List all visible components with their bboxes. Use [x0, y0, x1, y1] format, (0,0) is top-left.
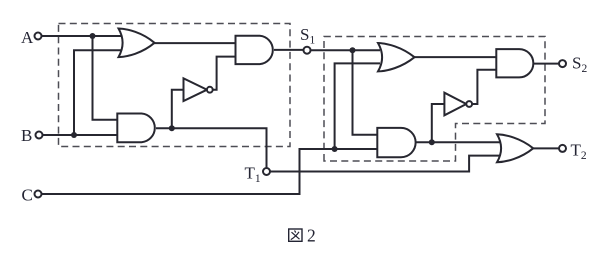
svg-text:S2: S2 [572, 53, 587, 75]
and-gate AND4 [377, 128, 415, 157]
wire OR3 output to T2 [533, 147, 559, 149]
dashed box HA1 [59, 24, 291, 147]
terminal B [36, 132, 43, 139]
wire C branch up to OR2 [335, 63, 380, 149]
wire T1 to OR3 [270, 156, 501, 172]
wire AND4 output to OR3 [416, 141, 502, 143]
terminal T2 [559, 145, 566, 152]
terminal C [35, 191, 42, 198]
svg-text:T2: T2 [571, 141, 587, 163]
terminal S1 [304, 47, 311, 54]
and-gate AND3 [496, 49, 533, 77]
node AND2-output junction [169, 125, 175, 131]
wire AND2 output to T1 [156, 128, 267, 168]
wire AND3 output to S2 [533, 63, 559, 65]
dashed box HA2 (notched bottom-right) [324, 37, 545, 162]
wire OR1 output to AND1 [153, 42, 236, 44]
wire inverter2 input [432, 104, 445, 142]
node B-branch junction [71, 132, 77, 138]
node C-branch junction [332, 146, 338, 152]
svg-text:A: A [21, 28, 34, 47]
wire S1 to OR2 [310, 49, 380, 51]
wire B input [43, 134, 121, 136]
wire OR2 output to AND3 [415, 56, 497, 58]
terminal T1 [263, 168, 270, 175]
terminal S2 [559, 60, 566, 67]
inverter INV1 [184, 78, 213, 101]
node A-branch junction [90, 33, 96, 39]
wire A branch down to AND2 [93, 36, 121, 120]
wire B branch up to OR1 [74, 50, 122, 135]
node AND4-output junction [429, 139, 435, 145]
svg-text:T1: T1 [245, 164, 261, 186]
wire inverter2 output to AND3 [473, 70, 497, 104]
svg-text:C: C [22, 186, 33, 205]
node S1-branch junction [350, 47, 356, 53]
wire inverter1 output to AND1 [213, 57, 236, 90]
wire S1 branch down to AND4 [353, 50, 381, 135]
wire C input [42, 149, 381, 194]
wire A input [42, 35, 123, 37]
or-gate OR3 [497, 134, 533, 162]
terminal A [35, 33, 42, 40]
or-gate OR1 [119, 29, 155, 58]
svg-text:B: B [21, 126, 32, 145]
and-gate AND1 [236, 36, 273, 64]
svg-text:S1: S1 [300, 25, 315, 47]
wire inverter1 input [172, 90, 184, 129]
wire AND1 output to S1 [274, 49, 304, 51]
caption figure-2 [289, 225, 316, 245]
inverter INV2 [444, 93, 472, 116]
or-gate OR2 [378, 43, 415, 71]
and-gate AND2 [117, 114, 155, 143]
svg-text:2: 2 [307, 225, 316, 245]
